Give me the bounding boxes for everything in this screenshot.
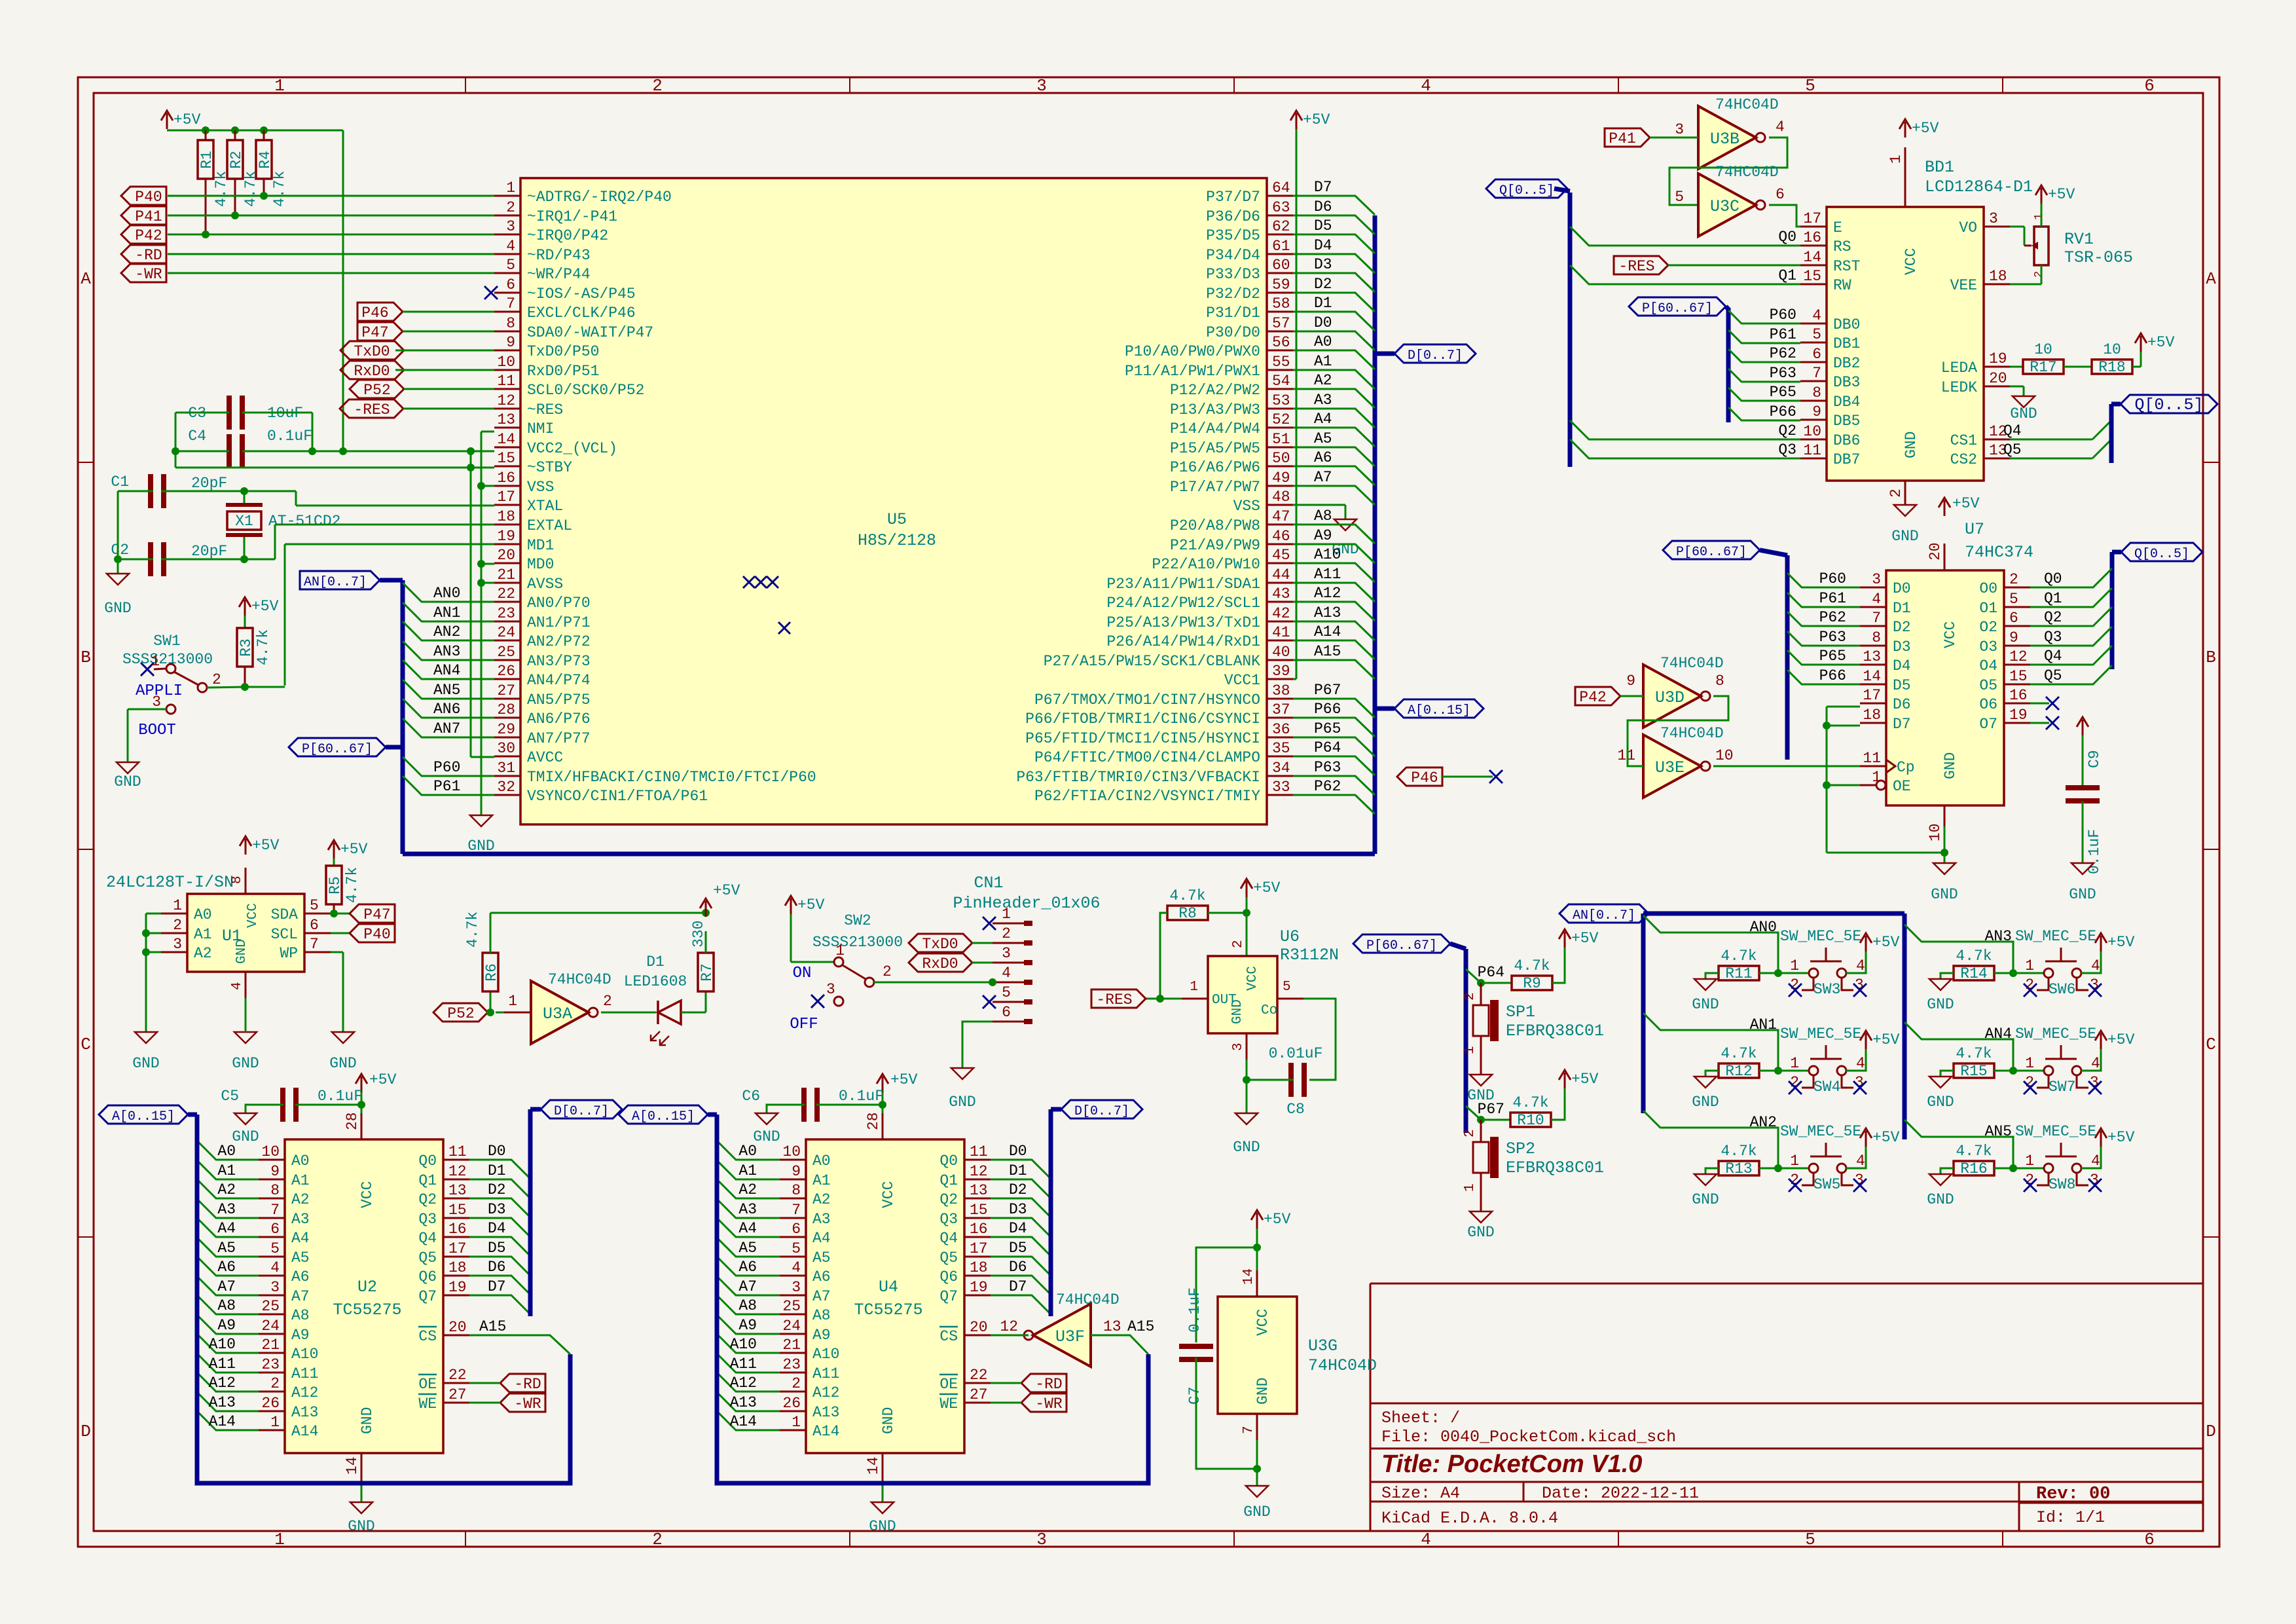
svg-text:1: 1 bbox=[274, 1530, 285, 1549]
wire R13 gnd bbox=[1705, 1168, 1719, 1174]
svg-text:Q[0..5]: Q[0..5] bbox=[1499, 183, 1554, 198]
svg-text:AN0: AN0 bbox=[1750, 919, 1777, 936]
wire A14 U2 bbox=[197, 1411, 259, 1430]
svg-text:25: 25 bbox=[782, 1298, 801, 1315]
svg-text:4: 4 bbox=[1856, 1153, 1865, 1170]
svg-text:SW_MEC_5E: SW_MEC_5E bbox=[1780, 928, 1861, 945]
svg-text:P65: P65 bbox=[1819, 648, 1846, 665]
svg-text:P66: P66 bbox=[1770, 403, 1796, 420]
sram U4 pin 12 Q1 bbox=[964, 1179, 991, 1181]
svg-text:18: 18 bbox=[1863, 707, 1881, 724]
mcu U5 pin 43 P24/A12/PW12/SCL1 bbox=[1267, 601, 1293, 603]
latch U7 pin 11 Cp bbox=[1860, 766, 1886, 767]
wire U7 D6 D7 OE tie bbox=[1827, 706, 1860, 708]
svg-text:4: 4 bbox=[1856, 957, 1865, 974]
svg-text:X1: X1 bbox=[235, 513, 253, 530]
svg-text:LEDA: LEDA bbox=[1941, 360, 1977, 377]
mcu U5 pin 37 P66/FTOB/TMRI1/CIN6/CSYNCI bbox=[1267, 717, 1293, 719]
wire A6 bbox=[1293, 466, 1375, 485]
svg-text:D3: D3 bbox=[1893, 638, 1911, 655]
latch U7 VCC pin 20 bbox=[1944, 544, 1946, 570]
junction CN1 pin4 bbox=[989, 978, 996, 986]
wire D6 U2 bbox=[469, 1276, 530, 1295]
sram U4 pin 27 WE bbox=[964, 1402, 991, 1404]
svg-text:A2: A2 bbox=[1314, 372, 1332, 389]
svg-text:A12: A12 bbox=[291, 1384, 318, 1401]
svg-text:Q3: Q3 bbox=[2044, 629, 2062, 646]
mcu U5 pin 22 AN0/P70 bbox=[494, 601, 520, 603]
bus label Q[0..5] right mid bbox=[2111, 402, 2121, 407]
latch U7 pin 5 O1 bbox=[2004, 606, 2030, 608]
svg-text:P41: P41 bbox=[1609, 130, 1635, 147]
svg-text:A10: A10 bbox=[812, 1346, 839, 1363]
svg-text:VCC: VCC bbox=[359, 1181, 376, 1208]
svg-text:7: 7 bbox=[1872, 610, 1881, 627]
svg-text:AN7/P77: AN7/P77 bbox=[527, 730, 591, 747]
sram U2 pin 21 A10 bbox=[259, 1352, 285, 1354]
svg-text:SW_MEC_5E: SW_MEC_5E bbox=[1780, 1123, 1861, 1140]
wire A5 bbox=[1293, 447, 1375, 466]
svg-text:A10: A10 bbox=[730, 1336, 757, 1353]
svg-text:16: 16 bbox=[970, 1221, 988, 1238]
inverter U3D bbox=[1643, 665, 1701, 728]
mcu U5 pin 58 P31/D1 bbox=[1267, 311, 1293, 313]
eeprom U1 pin 3 A2 bbox=[161, 951, 187, 953]
wire P67 bbox=[1466, 1106, 1510, 1120]
wire SCL P40 bbox=[331, 932, 350, 934]
wire X1 bottom bbox=[244, 537, 246, 559]
svg-text:D2: D2 bbox=[1893, 619, 1911, 636]
resistor R18 bbox=[2064, 366, 2092, 368]
svg-text:P23/A11/PW11/SDA1: P23/A11/PW11/SDA1 bbox=[1106, 576, 1260, 593]
latch U7 pin 1 OE bbox=[1860, 784, 1877, 786]
svg-text:17: 17 bbox=[448, 1240, 467, 1257]
svg-text:APPLI: APPLI bbox=[136, 682, 183, 700]
wire U6 gnd bbox=[1246, 1060, 1248, 1113]
svg-text:A15: A15 bbox=[1314, 643, 1341, 660]
svg-text:R14: R14 bbox=[1960, 965, 1987, 982]
label P52 u3a bbox=[433, 1003, 488, 1022]
wire R10 right bbox=[1551, 1088, 1565, 1120]
svg-text:NMI: NMI bbox=[527, 420, 554, 437]
svg-text:+5V: +5V bbox=[1912, 120, 1939, 137]
svg-text:GND: GND bbox=[869, 1518, 896, 1535]
svg-text:VCC: VCC bbox=[880, 1181, 897, 1208]
svg-text:Q3: Q3 bbox=[418, 1211, 437, 1228]
lcd BD1 pin 7 DB3 bbox=[1800, 380, 1827, 382]
svg-text:~WR/P44: ~WR/P44 bbox=[527, 266, 591, 283]
label -RES bbox=[340, 399, 403, 418]
wire R11 out bbox=[1759, 972, 1809, 974]
inverter U3F bbox=[1033, 1304, 1091, 1367]
label TxD0 bbox=[340, 341, 404, 360]
label P47 bbox=[357, 322, 403, 341]
latch U7 pin 7 D2 bbox=[1860, 625, 1886, 627]
svg-text:A1: A1 bbox=[738, 1162, 757, 1179]
bus P60-67 u7 bbox=[1760, 550, 1787, 555]
wire P65 lcd bbox=[1728, 388, 1800, 401]
svg-text:DB6: DB6 bbox=[1833, 432, 1860, 449]
svg-text:A2: A2 bbox=[291, 1191, 310, 1208]
svg-text:1: 1 bbox=[1463, 1183, 1478, 1192]
wire R16 out bbox=[1994, 1168, 2044, 1170]
wire A15 U2 bbox=[469, 1335, 570, 1354]
ground GND C9 bbox=[2071, 863, 2094, 874]
svg-text:P35/D5: P35/D5 bbox=[1206, 227, 1260, 244]
svg-text:GND: GND bbox=[1927, 996, 1954, 1013]
svg-text:AN1: AN1 bbox=[433, 604, 460, 621]
svg-text:1: 1 bbox=[173, 897, 182, 914]
mcu U5 pin 40 P27/A15/PW15/SCK1/CBLANK bbox=[1267, 659, 1293, 661]
svg-text:6: 6 bbox=[792, 1221, 801, 1238]
svg-text:SW_MEC_5E: SW_MEC_5E bbox=[2015, 928, 2096, 945]
wire P47 bbox=[403, 331, 494, 333]
label P52 bbox=[350, 380, 404, 398]
svg-text:GND: GND bbox=[1254, 1378, 1271, 1405]
mcu U5 pin 7 EXCL/CLK/P46 bbox=[494, 311, 520, 313]
svg-text:P10/A0/PW0/PWX0: P10/A0/PW0/PWX0 bbox=[1125, 343, 1260, 360]
wire P46 nc bbox=[1442, 776, 1493, 778]
svg-text:53: 53 bbox=[1272, 392, 1290, 409]
svg-text:U3F: U3F bbox=[1055, 1327, 1085, 1346]
junction R4 top bbox=[260, 126, 268, 134]
mcu U5 pin 14 VCC2_(VCL) bbox=[494, 447, 520, 449]
wire R14 out bbox=[1994, 972, 2044, 974]
wire A12 bbox=[1293, 602, 1375, 621]
svg-text:D4: D4 bbox=[1009, 1220, 1027, 1237]
svg-text:P46: P46 bbox=[361, 304, 388, 322]
svg-text:3: 3 bbox=[270, 1279, 280, 1296]
wire P42 bbox=[168, 234, 494, 236]
mcu U5 pin 10 RxD0/P51 bbox=[494, 369, 520, 371]
label -RD bbox=[121, 245, 166, 263]
power +5V U2 bbox=[361, 1077, 363, 1092]
mcu U5 pin 59 P32/D2 bbox=[1267, 292, 1293, 294]
svg-text:17: 17 bbox=[1863, 687, 1881, 704]
capacitor C1 bbox=[148, 474, 153, 508]
svg-text:0.01uF: 0.01uF bbox=[1269, 1045, 1323, 1062]
resistor R8 bbox=[1167, 906, 1208, 920]
resistor R17 bbox=[2010, 366, 2023, 368]
wire R4 to P40 net bbox=[263, 179, 265, 196]
svg-text:21: 21 bbox=[497, 566, 515, 583]
svg-text:28: 28 bbox=[344, 1112, 361, 1130]
wire A2 bbox=[1293, 389, 1375, 408]
wire U1 address tie bbox=[146, 913, 161, 915]
svg-text:62: 62 bbox=[1272, 218, 1290, 235]
wire -RES RST bbox=[1668, 265, 1800, 267]
svg-text:D0: D0 bbox=[1314, 314, 1332, 331]
bus Q left of LCD bbox=[1568, 193, 1573, 467]
svg-text:1: 1 bbox=[1002, 906, 1011, 923]
svg-text:2: 2 bbox=[883, 963, 892, 980]
wire A4 bbox=[1293, 428, 1375, 447]
wire P60 left bbox=[403, 757, 494, 776]
wire U6 vcc bbox=[1246, 897, 1248, 956]
svg-text:R8: R8 bbox=[1178, 905, 1197, 922]
mcu U5 pin 20 MD0 bbox=[494, 563, 520, 564]
svg-text:A[0..15]: A[0..15] bbox=[1408, 703, 1470, 718]
svg-text:57: 57 bbox=[1272, 315, 1290, 332]
connector CN1 pin 6 bbox=[993, 1021, 1024, 1023]
svg-text:AN2: AN2 bbox=[433, 623, 460, 640]
svg-text:1: 1 bbox=[1790, 1055, 1799, 1072]
svg-text:SDA: SDA bbox=[271, 906, 299, 923]
svg-text:SDA0/-WAIT/P47: SDA0/-WAIT/P47 bbox=[527, 324, 653, 341]
svg-text:P64/FTIC/TMO0/CIN4/CLAMPO: P64/FTIC/TMO0/CIN4/CLAMPO bbox=[1034, 749, 1260, 766]
no-connect U7 O6 bbox=[2030, 703, 2049, 705]
wire R2 to P41 net bbox=[234, 179, 236, 215]
svg-text:Q5: Q5 bbox=[2044, 667, 2062, 684]
latch U7 pin 13 D4 bbox=[1860, 664, 1886, 666]
svg-text:59: 59 bbox=[1272, 276, 1290, 293]
svg-text:A5: A5 bbox=[812, 1249, 831, 1266]
resistor R16 bbox=[1954, 1161, 1994, 1175]
latch U7 pin 15 O5 bbox=[2004, 684, 2030, 686]
gate U3G pin 7 bbox=[1256, 1414, 1258, 1440]
svg-text:A13: A13 bbox=[209, 1394, 236, 1411]
svg-text:AN5: AN5 bbox=[433, 682, 460, 699]
svg-text:5: 5 bbox=[310, 897, 319, 914]
svg-text:GND: GND bbox=[1692, 1191, 1719, 1208]
label P41 top bbox=[1605, 128, 1650, 147]
svg-text:R11: R11 bbox=[1725, 965, 1752, 982]
power +5V BD1 bbox=[1904, 122, 1906, 138]
svg-text:11: 11 bbox=[497, 373, 515, 390]
inverter U3A bbox=[531, 981, 589, 1044]
svg-text:GND: GND bbox=[1692, 1094, 1719, 1111]
svg-text:P37/D7: P37/D7 bbox=[1206, 189, 1260, 206]
latch U7 pin 6 O2 bbox=[2004, 625, 2030, 627]
svg-text:GND: GND bbox=[2069, 886, 2096, 903]
svg-text:A9: A9 bbox=[812, 1327, 831, 1344]
svg-text:AN2/P72: AN2/P72 bbox=[527, 633, 591, 650]
sram U2 VCC pin 28 bbox=[361, 1113, 363, 1139]
sram U2 pin 27 WE bbox=[443, 1402, 469, 1404]
bus label P[60..67] lcd bbox=[1629, 297, 1726, 316]
svg-text:1: 1 bbox=[2025, 1055, 2034, 1072]
wire P60 lcd bbox=[1728, 310, 1800, 323]
svg-text:VEE: VEE bbox=[1950, 277, 1977, 294]
sram U4 pin 25 A8 bbox=[780, 1314, 806, 1316]
svg-text:AN4/P74: AN4/P74 bbox=[527, 672, 591, 689]
svg-text:+5V: +5V bbox=[1872, 934, 1900, 951]
svg-text:5: 5 bbox=[1805, 76, 1815, 96]
sram U2 pin 2 A12 bbox=[259, 1391, 285, 1393]
svg-text:AN5: AN5 bbox=[1985, 1123, 2012, 1140]
svg-text:D4: D4 bbox=[1893, 657, 1911, 674]
wire A13 U4 bbox=[717, 1392, 780, 1411]
svg-text:4: 4 bbox=[1872, 591, 1881, 608]
eeprom U1 24LC128 body bbox=[187, 894, 304, 972]
svg-text:3: 3 bbox=[1872, 571, 1881, 588]
svg-text:U3C: U3C bbox=[1710, 197, 1740, 216]
svg-text:P16/A6/PW6: P16/A6/PW6 bbox=[1170, 459, 1260, 476]
mcu U5 pin 56 P10/A0/PW0/PWX0 bbox=[1267, 350, 1293, 352]
svg-text:O3: O3 bbox=[1979, 638, 1997, 655]
wire D1 U2 bbox=[469, 1179, 530, 1198]
wire D0 bbox=[1293, 331, 1375, 350]
svg-text:20: 20 bbox=[497, 547, 515, 564]
svg-text:2: 2 bbox=[792, 1375, 801, 1392]
svg-text:A0: A0 bbox=[291, 1153, 310, 1170]
svg-text:RxD0: RxD0 bbox=[922, 955, 958, 972]
bus label Q[0..5] top bbox=[1486, 179, 1567, 198]
ground GND U1 addr bbox=[135, 1032, 157, 1043]
svg-text:A: A bbox=[2206, 269, 2216, 289]
svg-text:1: 1 bbox=[2033, 213, 2045, 220]
svg-text:RxD0: RxD0 bbox=[354, 363, 390, 380]
eeprom U1 pin 7 WP bbox=[304, 951, 331, 953]
svg-text:51: 51 bbox=[1272, 431, 1290, 448]
wire A6 U4 bbox=[717, 1257, 780, 1276]
latch U7 pin 16 O6 bbox=[2004, 703, 2030, 705]
svg-text:P66/FTOB/TMRI1/CIN6/CSYNCI: P66/FTOB/TMRI1/CIN6/CSYNCI bbox=[1025, 710, 1260, 728]
svg-text:+5V: +5V bbox=[173, 111, 201, 128]
wire P66 lcd bbox=[1728, 407, 1800, 420]
mcu U5 pin 29 AN7/P77 bbox=[494, 737, 520, 739]
svg-text:4.7k: 4.7k bbox=[1721, 948, 1757, 965]
svg-text:DB7: DB7 bbox=[1833, 451, 1860, 468]
latch U7 pin 8 D3 bbox=[1860, 645, 1886, 647]
svg-text:44: 44 bbox=[1272, 566, 1290, 583]
sram U4 pin 4 A6 bbox=[780, 1275, 806, 1277]
svg-text:A9: A9 bbox=[217, 1317, 236, 1334]
svg-text:15: 15 bbox=[497, 450, 515, 467]
wire AVCC tie bbox=[470, 468, 472, 757]
svg-text:D5: D5 bbox=[1893, 677, 1911, 694]
lcd BD1 GND pin 2 bbox=[1904, 481, 1906, 505]
wire D0 U2 bbox=[469, 1160, 530, 1179]
ground GND SW1 bbox=[117, 762, 139, 773]
svg-text:52: 52 bbox=[1272, 411, 1290, 428]
svg-text:GND: GND bbox=[1942, 752, 1959, 779]
power +5V R7 bbox=[705, 901, 707, 917]
svg-text:AN[0..7]: AN[0..7] bbox=[1573, 908, 1635, 923]
svg-text:SP1: SP1 bbox=[1506, 1003, 1535, 1022]
svg-text:Q4: Q4 bbox=[2003, 422, 2022, 439]
svg-text:10: 10 bbox=[1927, 823, 1944, 841]
sram U4 pin 22 OE bbox=[964, 1382, 991, 1384]
svg-text:23: 23 bbox=[497, 605, 515, 622]
svg-text:A0: A0 bbox=[194, 906, 212, 923]
svg-text:GND: GND bbox=[1891, 528, 1918, 545]
ground GND BD1 bbox=[1894, 505, 1916, 516]
sram U2 pin 15 Q3 bbox=[443, 1217, 469, 1219]
svg-text:D6: D6 bbox=[488, 1259, 506, 1276]
svg-text:33: 33 bbox=[1272, 779, 1290, 796]
svg-text:6: 6 bbox=[1002, 1004, 1011, 1021]
svg-text:58: 58 bbox=[1272, 295, 1290, 312]
svg-text:18: 18 bbox=[497, 508, 515, 525]
svg-text:2: 2 bbox=[2033, 271, 2045, 278]
svg-text:AN1: AN1 bbox=[1750, 1016, 1777, 1033]
svg-text:A4: A4 bbox=[291, 1230, 310, 1247]
svg-text:8: 8 bbox=[506, 315, 515, 332]
bus AN keys left bbox=[1641, 913, 1646, 1113]
wire A11 bbox=[1293, 583, 1375, 602]
wire D3 bbox=[1293, 273, 1375, 292]
bus A U2 U-shape bbox=[197, 1115, 570, 1483]
wire RV1 top bbox=[2041, 204, 2043, 227]
svg-text:0.1uF: 0.1uF bbox=[318, 1088, 363, 1105]
svg-text:6: 6 bbox=[1776, 186, 1785, 203]
svg-text:+5V: +5V bbox=[251, 598, 279, 615]
wire A5 U4 bbox=[717, 1238, 780, 1257]
wire P42 u3d bbox=[1620, 695, 1643, 697]
svg-text:A6: A6 bbox=[217, 1259, 236, 1276]
mcu U5 H8S/2128 body bbox=[520, 178, 1267, 824]
svg-text:P62: P62 bbox=[1314, 778, 1341, 795]
svg-text:6: 6 bbox=[310, 917, 319, 934]
svg-text:P14/A4/PW4: P14/A4/PW4 bbox=[1170, 420, 1260, 437]
svg-text:D7: D7 bbox=[1893, 716, 1911, 733]
svg-text:2: 2 bbox=[212, 671, 221, 688]
svg-text:+5V: +5V bbox=[252, 837, 280, 854]
svg-text:P63/FTIB/TMRI0/CIN3/VFBACKI: P63/FTIB/TMRI0/CIN3/VFBACKI bbox=[1016, 769, 1260, 786]
bus Q right mid bbox=[2109, 404, 2114, 463]
svg-text:4: 4 bbox=[230, 982, 245, 990]
mcu U5 pin 28 AN6/P76 bbox=[494, 717, 520, 719]
svg-text:6: 6 bbox=[506, 276, 515, 293]
svg-text:7: 7 bbox=[1241, 1426, 1256, 1434]
lcd BD1 pin 11 DB7 bbox=[1800, 458, 1827, 460]
svg-text:D1: D1 bbox=[488, 1162, 506, 1179]
svg-text:P62/FTIA/CIN2/VSYNCI/TMIY: P62/FTIA/CIN2/VSYNCI/TMIY bbox=[1034, 788, 1260, 805]
svg-text:SW_MEC_5E: SW_MEC_5E bbox=[1780, 1025, 1861, 1043]
svg-text:1: 1 bbox=[2025, 1153, 2034, 1170]
svg-text:A12: A12 bbox=[812, 1384, 839, 1401]
mcu U5 pin 62 P35/D5 bbox=[1267, 234, 1293, 236]
svg-text:P61: P61 bbox=[1770, 326, 1796, 343]
svg-text:H8S/2128: H8S/2128 bbox=[858, 531, 936, 550]
bus label AN[0..7] keys bbox=[1559, 904, 1649, 923]
svg-text:5: 5 bbox=[1002, 984, 1011, 1001]
svg-text:14: 14 bbox=[865, 1456, 882, 1475]
svg-text:29: 29 bbox=[497, 721, 515, 738]
resistor R12 bbox=[1719, 1063, 1759, 1078]
svg-text:A7: A7 bbox=[738, 1278, 757, 1295]
svg-text:Title: PocketCom V1.0: Title: PocketCom V1.0 bbox=[1381, 1450, 1642, 1478]
wire -RES to U6 bbox=[1146, 998, 1182, 1000]
wire C4 left bbox=[175, 451, 229, 452]
svg-text:P63: P63 bbox=[1819, 629, 1846, 646]
svg-text:49: 49 bbox=[1272, 470, 1290, 487]
wire D6 bbox=[1293, 215, 1375, 234]
svg-text:4.7k: 4.7k bbox=[344, 867, 361, 903]
svg-text:17: 17 bbox=[1803, 210, 1821, 227]
svg-text:D7: D7 bbox=[1314, 179, 1332, 196]
svg-text:+5V: +5V bbox=[2107, 934, 2135, 951]
mcu U5 pin 45 P22/A10/PW10 bbox=[1267, 563, 1293, 564]
svg-text:6: 6 bbox=[2144, 1530, 2155, 1549]
svg-text:74HC04D: 74HC04D bbox=[1056, 1291, 1120, 1308]
speaker SP1 EFBRQ38C01 bbox=[1480, 983, 1482, 1005]
svg-text:A0: A0 bbox=[217, 1143, 236, 1160]
svg-text:RW: RW bbox=[1833, 277, 1851, 294]
latch U7 pin 18 D7 bbox=[1860, 722, 1886, 724]
svg-text:11: 11 bbox=[970, 1143, 988, 1160]
ground GND R11 bbox=[1694, 979, 1717, 990]
svg-text:A14: A14 bbox=[812, 1423, 839, 1440]
wire D2 bbox=[1293, 293, 1375, 312]
wire U7 gnd bbox=[1944, 826, 1946, 863]
svg-text:20pF: 20pF bbox=[191, 543, 227, 560]
svg-text:A6: A6 bbox=[738, 1259, 757, 1276]
svg-text:R15: R15 bbox=[1960, 1063, 1987, 1080]
wire SW7 +5V bbox=[2081, 1048, 2101, 1071]
svg-text:GND: GND bbox=[949, 1094, 975, 1111]
